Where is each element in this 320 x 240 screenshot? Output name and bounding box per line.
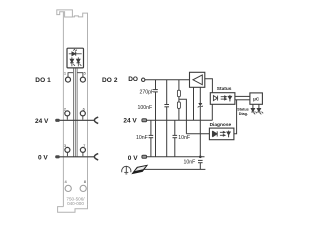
wire driver supply pin — [193, 87, 195, 120]
diode D1 zener — [198, 103, 203, 108]
24V feed-through fork — [94, 117, 98, 123]
wire terminal 2 stem — [66, 116, 68, 120]
svg-text:Status: Status — [217, 86, 232, 92]
capacitor 10nF left (24V to 0V) — [149, 120, 154, 157]
svg-text:100nF: 100nF — [137, 105, 152, 111]
wire divider sense node — [179, 99, 187, 134]
svg-text:10nF: 10nF — [136, 135, 148, 141]
svg-text:0 V: 0 V — [38, 154, 48, 161]
terminal 6 circle — [80, 111, 85, 116]
svg-text:10nF: 10nF — [183, 160, 195, 166]
svg-text:Diagnose: Diagnose — [210, 122, 232, 128]
terminal 2 circle — [65, 111, 70, 116]
24V terminal lug schematic — [142, 119, 147, 122]
microcontroller U3 — [250, 93, 263, 104]
svg-text:8: 8 — [84, 179, 87, 184]
wire terminal 7 stem — [82, 152, 84, 156]
svg-text:0 V: 0 V — [128, 155, 138, 162]
terminal 1 stem — [68, 73, 73, 77]
module bottom rail foot — [58, 205, 88, 212]
0V lug at module — [55, 155, 60, 158]
svg-text:040-000: 040-000 — [67, 201, 84, 206]
svg-text:1: 1 — [64, 71, 67, 76]
svg-text:5: 5 — [84, 71, 87, 76]
junction 0V/zener — [199, 156, 202, 159]
24V field wire across module — [60, 119, 95, 121]
wire 24V rail — [147, 119, 213, 121]
capacitor 100nF vertical wire — [164, 80, 169, 157]
wire status opto to uC (pair) — [235, 95, 250, 97]
terminal 3 circle — [65, 147, 70, 152]
wire terminal 6 stem — [82, 116, 84, 120]
module top-right profile and right edge — [72, 13, 87, 205]
opto-coupler U4 Diagnose — [209, 128, 234, 140]
resistor R2 — [178, 97, 180, 102]
terminal 7 circle — [80, 147, 85, 152]
svg-text:DO 2: DO 2 — [102, 77, 118, 84]
0V feed-through fork — [94, 154, 98, 160]
svg-text:10nF: 10nF — [178, 135, 190, 141]
svg-text:7: 7 — [83, 143, 86, 148]
svg-text:µC: µC — [253, 96, 260, 101]
0V terminal lug schematic — [142, 155, 147, 158]
module top latch — [57, 10, 73, 17]
capacitor 10nF bottom (0V to earth) — [198, 160, 203, 169]
svg-text:Diag.: Diag. — [239, 112, 248, 116]
capacitor 270pF vertical wire — [153, 80, 158, 157]
LED Status indicator — [251, 108, 257, 114]
DO terminal circle — [142, 78, 145, 81]
status LED box on module — [67, 48, 84, 68]
wire R2 to 24V — [178, 108, 180, 120]
wire diagnose feedback drop — [234, 100, 237, 134]
wire 0V rail — [147, 156, 205, 158]
op-amp U1 output driver — [190, 72, 205, 87]
wire zener to 0V — [199, 107, 201, 157]
ground DIN rail wedge — [131, 165, 148, 175]
opto-coupler U2 Status — [210, 93, 235, 105]
svg-text:270pF: 270pF — [139, 89, 154, 95]
terminal 1 circle — [66, 77, 71, 82]
svg-text:24 V: 24 V — [123, 117, 137, 124]
wire terminal 3 stem — [66, 152, 68, 156]
wire DO rail — [145, 79, 190, 81]
resistor R1 — [178, 80, 180, 90]
svg-text:4: 4 — [64, 179, 67, 184]
svg-text:6: 6 — [83, 106, 86, 111]
0V field wire across module — [60, 156, 95, 158]
svg-text:24 V: 24 V — [35, 118, 49, 125]
module mounting hole right (8) — [80, 185, 86, 191]
wire sense to diagnose opto — [186, 133, 209, 135]
module body left edge — [62, 12, 64, 207]
internal wire bundle — [73, 68, 77, 157]
terminal 5 stem — [77, 73, 83, 77]
LED Diag indicator — [257, 108, 263, 114]
wire status opto cathode to 24V — [211, 104, 213, 120]
twin LED symbols vertical inside box — [70, 57, 81, 66]
LED symbol horizontal inside box — [69, 49, 82, 56]
wire earth rail — [136, 168, 205, 170]
wire driver pin to zener — [199, 87, 201, 103]
wire driver output to status opto — [205, 79, 213, 93]
svg-text:DO: DO — [128, 76, 138, 83]
terminal 5 circle — [80, 77, 85, 82]
capacitor 10nF middle (24V to 0V) — [173, 120, 178, 157]
svg-text:DO 1: DO 1 — [35, 77, 51, 84]
svg-text:Status: Status — [237, 108, 249, 112]
ground earth symbol — [122, 166, 131, 174]
module mounting hole left (4) — [65, 185, 71, 191]
24V lug at module — [55, 119, 60, 122]
wire uC LED pins — [252, 104, 254, 108]
